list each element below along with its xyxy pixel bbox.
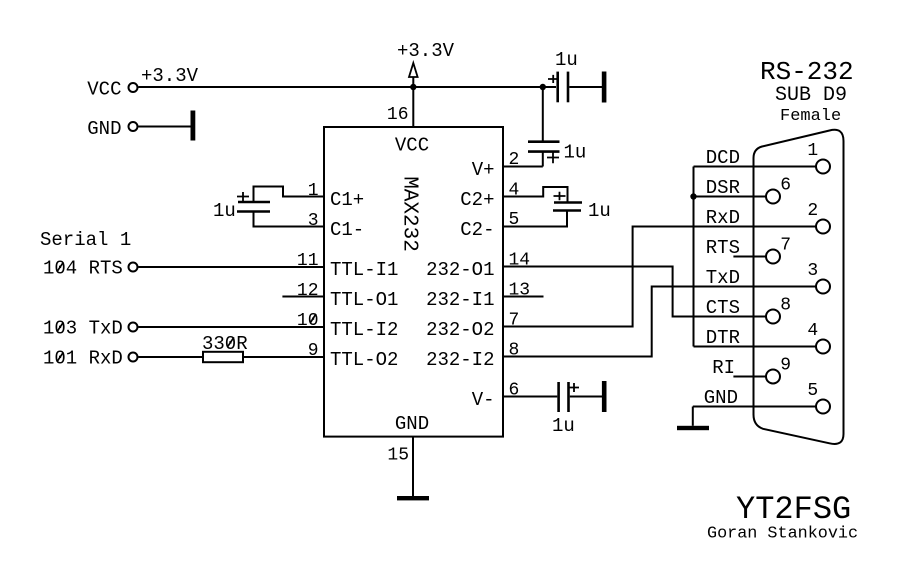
svg-text:1u: 1u — [555, 49, 578, 71]
svg-text:GND: GND — [704, 387, 738, 409]
capacitor 1u (V+) — [528, 142, 586, 167]
wire 232-O1 (14) to CTS — [503, 267, 766, 317]
DB9 pin 5 — [807, 381, 830, 414]
svg-text:C2-: C2- — [460, 219, 494, 241]
svg-text:VCC: VCC — [395, 135, 429, 157]
bus DCD-DSR-DTR — [693, 167, 695, 347]
svg-text:232-I1: 232-I1 — [426, 289, 494, 311]
svg-text:2: 2 — [509, 150, 520, 170]
svg-text:7: 7 — [780, 236, 791, 256]
svg-text:RI: RI — [712, 357, 735, 379]
svg-text:DCD: DCD — [706, 147, 740, 169]
svg-text:TTL-O1: TTL-O1 — [330, 289, 398, 311]
terminal VCC — [87, 78, 137, 100]
wire VCC rail — [139, 86, 557, 88]
svg-text:MAX232: MAX232 — [398, 176, 421, 252]
svg-text:12: 12 — [297, 281, 319, 301]
svg-text:RS-232: RS-232 — [760, 57, 854, 87]
svg-text:3: 3 — [308, 211, 319, 231]
svg-text:DTR: DTR — [706, 327, 740, 349]
wire 232-O2 (7) to RxD — [503, 227, 816, 327]
wire DTR — [694, 346, 817, 348]
svg-text:TxD: TxD — [706, 267, 740, 289]
svg-text:SUB D9: SUB D9 — [775, 84, 847, 107]
ic U1 MAX232 — [324, 127, 503, 437]
svg-text:VCC: VCC — [87, 78, 121, 100]
svg-text:232-I2: 232-I2 — [426, 349, 494, 371]
svg-text:101 RxD: 101 RxD — [43, 348, 123, 370]
svg-text:15: 15 — [387, 446, 409, 466]
svg-text:GND: GND — [395, 413, 429, 435]
svg-text:C1+: C1+ — [330, 189, 364, 211]
wire pin 2 — [503, 166, 543, 168]
capacitor 1u (C1, pins 1-3) — [213, 187, 324, 227]
svg-text:DSR: DSR — [706, 177, 740, 199]
svg-text:5: 5 — [509, 210, 520, 230]
wire 232-I2 (8) to TxD — [503, 287, 816, 357]
wire — [139, 126, 191, 128]
svg-text:4: 4 — [509, 181, 520, 201]
junction — [690, 193, 696, 199]
svg-text:4: 4 — [807, 321, 818, 341]
pin 13 stub — [503, 296, 544, 298]
svg-text:6: 6 — [509, 381, 520, 401]
svg-text:5: 5 — [807, 381, 818, 401]
svg-text:1u: 1u — [588, 200, 611, 222]
capacitor 1u (V-, pin 6) — [503, 382, 602, 437]
svg-text:GND: GND — [87, 118, 121, 140]
svg-text:2: 2 — [807, 201, 818, 221]
pin 12 stub — [282, 296, 324, 298]
terminal GND — [87, 118, 137, 140]
ground bar — [191, 111, 196, 141]
svg-text:Serial 1: Serial 1 — [40, 229, 131, 251]
slash of zero in 10 — [311, 314, 317, 323]
svg-text:TTL-I2: TTL-I2 — [330, 319, 398, 341]
DB9 pin 8 — [766, 296, 791, 324]
svg-text:232-O1: 232-O1 — [426, 259, 494, 281]
svg-text:C1-: C1- — [330, 219, 364, 241]
terminal 104 RTS — [43, 258, 138, 280]
wire pin 11 — [139, 266, 325, 268]
wire RI stub — [733, 376, 766, 378]
connector J1 DB9 outline — [754, 130, 844, 444]
ground bar — [602, 72, 607, 103]
wire DCD — [694, 166, 817, 168]
wire GND — [693, 406, 816, 408]
svg-text:V+: V+ — [472, 159, 495, 181]
wire RTS stub — [733, 256, 766, 258]
DB9 pin 4 — [807, 321, 830, 354]
DB9 pin 9 — [766, 356, 791, 384]
wire GND drop — [692, 407, 694, 426]
svg-text:Goran Stankovic: Goran Stankovic — [707, 525, 858, 544]
junction — [410, 84, 416, 90]
pin 15 — [387, 437, 413, 498]
wire pin 10 — [139, 326, 325, 328]
svg-text:YT2FSG: YT2FSG — [736, 491, 851, 528]
svg-text:8: 8 — [780, 296, 791, 316]
ground bar — [677, 426, 709, 430]
svg-text:CTS: CTS — [706, 297, 740, 319]
svg-text:TTL-I1: TTL-I1 — [330, 259, 398, 281]
svg-text:16: 16 — [387, 105, 409, 125]
svg-text:Female: Female — [780, 107, 841, 126]
svg-text:1u: 1u — [564, 142, 587, 164]
wire V+ vertical — [542, 87, 544, 141]
capacitor 1u (VCC bypass, top) — [548, 49, 602, 102]
svg-text:1: 1 — [807, 141, 818, 161]
svg-text:6: 6 — [780, 176, 791, 196]
resistor 330R — [139, 333, 325, 362]
svg-text:3: 3 — [807, 261, 818, 281]
power symbol +3.3V — [397, 40, 455, 87]
DB9 pin 6 — [766, 176, 791, 204]
svg-text:104 RTS: 104 RTS — [43, 258, 123, 280]
svg-text:1u: 1u — [552, 415, 575, 437]
svg-text:1: 1 — [308, 181, 319, 201]
terminal 103 TxD — [43, 318, 138, 340]
DB9 pin 7 — [766, 236, 791, 264]
svg-text:1u: 1u — [213, 200, 236, 222]
svg-text:232-O2: 232-O2 — [426, 319, 494, 341]
DB9 pin 2 — [807, 201, 830, 234]
svg-text:RTS: RTS — [706, 237, 740, 259]
terminal 101 RxD — [43, 348, 138, 370]
svg-text:V-: V- — [472, 389, 495, 411]
pin 16 — [387, 87, 413, 127]
ground bar — [602, 381, 607, 412]
svg-text:330R: 330R — [202, 333, 248, 355]
svg-text:TTL-O2: TTL-O2 — [330, 349, 398, 371]
svg-text:103 TxD: 103 TxD — [43, 318, 123, 340]
ground bar — [397, 496, 429, 500]
DB9 pin 3 — [807, 261, 830, 294]
DB9 pin 1 — [807, 141, 830, 174]
svg-text:RxD: RxD — [706, 207, 740, 229]
svg-text:C2+: C2+ — [460, 189, 494, 211]
svg-text:+3.3V: +3.3V — [141, 65, 199, 87]
svg-text:+3.3V: +3.3V — [397, 40, 455, 62]
capacitor 1u (C2, pins 4-5) — [503, 187, 611, 227]
svg-text:9: 9 — [780, 356, 791, 376]
junction — [540, 84, 546, 90]
wire DSR — [694, 196, 767, 198]
